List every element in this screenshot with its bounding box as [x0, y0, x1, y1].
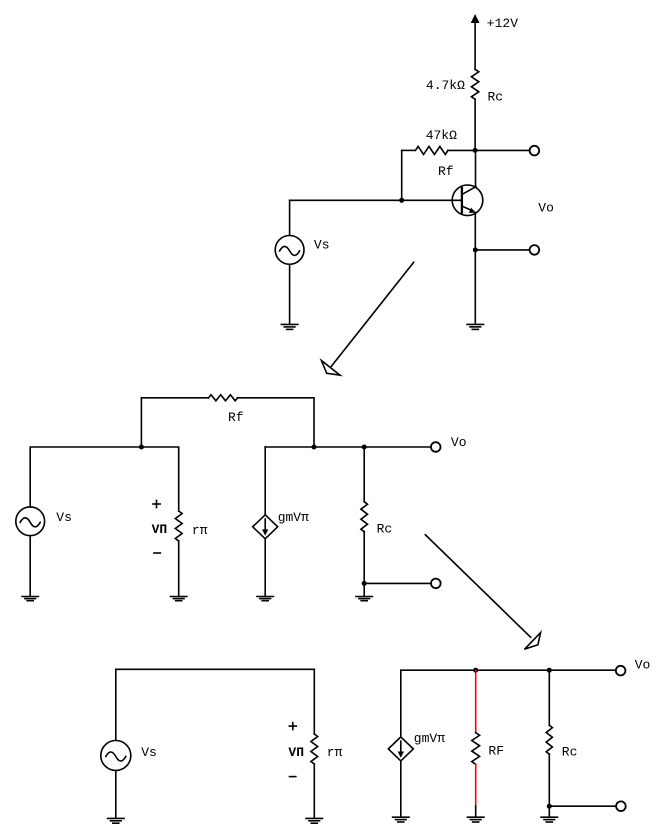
svg-text:VΠ: VΠ	[152, 522, 168, 537]
wire Rc bottom lead (bottom-right)	[548, 754, 550, 806]
svg-text:Vo: Vo	[635, 658, 651, 673]
svg-text:Vo: Vo	[451, 435, 467, 450]
svg-text:rπ: rπ	[327, 745, 343, 760]
wire Rf top-left lead	[141, 398, 208, 447]
wire emitter down	[474, 212, 476, 250]
label + polarity (bottom-left)	[289, 725, 296, 727]
wire emitter node to output terminal	[475, 249, 529, 251]
wire Vs bottom lead (middle)	[29, 536, 31, 597]
terminal Vo (middle circuit)	[431, 442, 441, 452]
svg-text:Vs: Vs	[56, 510, 72, 525]
wire collector up to node	[475, 150, 477, 186]
wire RF ground stub	[475, 806, 477, 817]
wire +12V supply lead	[474, 22, 476, 70]
wire output rail (middle circuit)	[265, 446, 431, 448]
resistor r&#960; (middle circuit)	[175, 511, 182, 541]
wire top rail (bottom-left circuit)	[116, 669, 314, 740]
wire base from source to transistor	[290, 199, 462, 201]
wire Rf top-right lead	[238, 398, 314, 447]
resistor r&#960; (bottom-left)	[311, 734, 318, 764]
node Rc top junction (bottom-right)	[547, 668, 552, 673]
node emitter junction	[473, 247, 478, 252]
resistor Rf 47k (top circuit)	[415, 146, 448, 154]
terminal lower (middle circuit)	[431, 579, 441, 589]
wire Rc to ground (middle)	[363, 583, 365, 596]
svg-text:rπ: rπ	[192, 523, 208, 538]
wire Rc to collector node	[474, 99, 476, 150]
node Rf left junction	[139, 445, 144, 450]
svg-text:4.7kΩ: 4.7kΩ	[426, 78, 465, 93]
svg-text:+12V: +12V	[487, 16, 518, 31]
terminal Vo- (top circuit)	[530, 245, 540, 255]
wire gmV&#960; bottom lead (middle)	[264, 539, 266, 597]
resistor Rf (middle circuit)	[209, 395, 238, 401]
source Vs (middle circuit)	[16, 507, 45, 536]
ground (Rc bottom-right)	[541, 817, 557, 822]
label + polarity (middle)	[153, 503, 160, 505]
node Rc bottom junction (bottom-right)	[547, 804, 552, 809]
svg-text:Vo: Vo	[538, 201, 554, 216]
transistor Q1 emitter arrow	[469, 208, 475, 213]
node RF top junction	[473, 668, 478, 673]
ground (RF bottom-right)	[468, 817, 484, 822]
arrow top-to-middle open head	[321, 361, 340, 376]
arrow top-to-middle shaft	[331, 262, 413, 366]
svg-text:47kΩ: 47kΩ	[426, 128, 457, 143]
terminal lower (bottom-right)	[616, 801, 626, 811]
wire Rc to ground (bottom-right)	[548, 806, 550, 817]
resistor Rc (bottom-right)	[546, 725, 552, 754]
label - polarity (middle)	[154, 552, 160, 554]
arrow middle-to-bottom shaft	[425, 535, 530, 638]
wire Rf down to base node	[401, 150, 403, 200]
node collector junction	[473, 148, 478, 153]
transistor Q1 emitter stroke	[463, 206, 474, 211]
ground (Vs bottom-left)	[108, 818, 124, 823]
transistor Q1 circle	[452, 185, 483, 216]
wire Vs bottom lead (bottom-left)	[115, 771, 117, 819]
resistor RF (bottom-right)	[472, 733, 480, 765]
dependent source gmV&#960; (middle circuit)	[253, 515, 278, 539]
ground (gmV&#960; bottom-right)	[393, 817, 409, 822]
wire Rf left lead	[402, 149, 416, 151]
transistor Q1 base bar	[461, 188, 463, 213]
transistor Q1 collector stroke	[463, 187, 477, 195]
source Vs (top circuit)	[275, 236, 304, 265]
ground (Vs middle)	[22, 597, 38, 601]
dependent source gmV&#960; (bottom-right)	[388, 737, 413, 761]
wire Vs top lead (top circuit)	[289, 200, 291, 235]
svg-text:Vs: Vs	[314, 238, 330, 253]
ground (Rc middle)	[356, 597, 372, 601]
arrow middle-to-bottom open head	[524, 633, 540, 650]
wire Rc top lead (bottom-right)	[548, 670, 550, 725]
wire r&#960; bottom lead (bottom-left)	[313, 764, 315, 818]
svg-text:Rc: Rc	[562, 745, 578, 760]
terminal Vo+ (top circuit)	[530, 146, 540, 156]
terminal Vo (bottom-right)	[616, 666, 626, 676]
source Vs (bottom-left)	[101, 741, 131, 771]
wire Rf right lead	[448, 149, 475, 151]
svg-text:Vs: Vs	[141, 745, 157, 760]
wire collector node to output terminal	[475, 149, 529, 151]
wire emitter to ground	[474, 250, 476, 324]
svg-text:RF: RF	[488, 744, 504, 759]
ground (r&#960; bottom-left)	[306, 818, 322, 823]
node Rf right junction	[312, 445, 317, 450]
wire Rc bottom lead (middle)	[363, 532, 365, 584]
wire r&#960; bottom lead (middle)	[178, 541, 180, 596]
ground (r&#960; middle)	[171, 597, 187, 601]
wire gmV&#960; bottom lead (bottom-right)	[400, 761, 402, 817]
ground (transistor emitter)	[467, 324, 483, 329]
wire to lower terminal (middle)	[364, 582, 431, 584]
wire Vs bottom lead (top circuit)	[289, 264, 291, 324]
ground (gmV&#960; middle)	[257, 597, 273, 601]
wire RF top lead (red highlighted)	[475, 670, 477, 732]
svg-text:Rf: Rf	[228, 410, 244, 425]
resistor Rc (top circuit)	[471, 69, 478, 99]
ground (Vs top circuit)	[281, 324, 297, 329]
label - polarity (bottom-left)	[290, 776, 296, 778]
resistor Rc (middle circuit)	[361, 502, 368, 532]
svg-text:Rf: Rf	[438, 164, 454, 179]
node base junction	[399, 198, 404, 203]
+12V supply arrow symbol	[471, 14, 480, 23]
svg-text:Rc: Rc	[488, 90, 504, 105]
node Rc top junction (middle)	[362, 445, 367, 450]
wire top rail (bottom-right circuit)	[401, 669, 616, 671]
svg-text:gmVπ: gmVπ	[278, 510, 309, 525]
svg-text:Rc: Rc	[377, 522, 393, 537]
wire Rc top lead (middle)	[363, 447, 365, 502]
node Rc bottom junction (middle)	[362, 581, 367, 586]
wire input rail (middle circuit)	[30, 447, 179, 511]
svg-text:gmVπ: gmVπ	[414, 731, 445, 746]
wire RF bottom lead (red highlighted)	[475, 764, 477, 806]
wire gmV&#960; top lead (bottom-right)	[400, 670, 402, 737]
wire gmV&#960; top lead (middle)	[264, 447, 266, 515]
svg-text:VΠ: VΠ	[288, 745, 304, 760]
wire to lower terminal (bottom-right)	[549, 805, 616, 807]
